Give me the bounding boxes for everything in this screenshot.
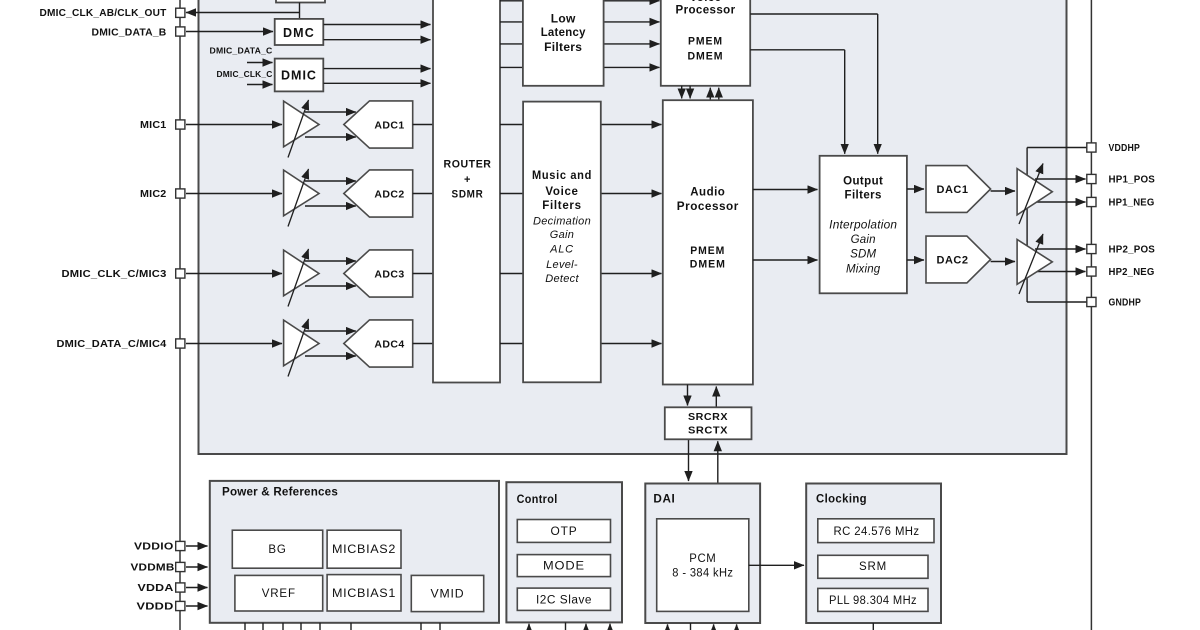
svg-text:VDDIO: VDDIO [134, 542, 174, 553]
svg-text:Audio: Audio [690, 187, 725, 199]
svg-text:DMIC_CLK_C: DMIC_CLK_C [217, 69, 273, 79]
svg-text:+: + [464, 174, 471, 186]
svg-text:HP1_NEG: HP1_NEG [1109, 198, 1155, 209]
svg-text:PCM: PCM [689, 553, 716, 565]
svg-text:DMIC_DATA_C/MIC4: DMIC_DATA_C/MIC4 [57, 339, 167, 350]
svg-text:Filters: Filters [845, 190, 882, 202]
svg-text:VDDA: VDDA [138, 583, 174, 594]
svg-text:DAI: DAI [653, 493, 675, 505]
svg-text:HP1_POS: HP1_POS [1109, 175, 1156, 186]
svg-text:DAC1: DAC1 [937, 184, 969, 196]
svg-text:RC 24.576 MHz: RC 24.576 MHz [834, 526, 920, 538]
svg-text:Filters: Filters [544, 40, 582, 54]
svg-text:OTP: OTP [551, 526, 578, 538]
svg-text:VREF: VREF [262, 588, 296, 600]
svg-text:Processor: Processor [677, 201, 739, 213]
svg-text:HP2_NEG: HP2_NEG [1109, 267, 1155, 278]
svg-text:Control: Control [517, 494, 558, 506]
svg-text:PMEM: PMEM [688, 36, 723, 48]
svg-text:SRM: SRM [859, 561, 887, 573]
svg-text:DMC: DMC [283, 26, 315, 40]
svg-text:Music and: Music and [532, 170, 592, 182]
svg-text:ALC: ALC [549, 244, 574, 256]
svg-text:I2C Slave: I2C Slave [536, 594, 592, 606]
svg-text:SRCRX: SRCRX [688, 411, 728, 423]
svg-text:DMEM: DMEM [688, 51, 724, 63]
svg-text:Detect: Detect [545, 273, 579, 285]
svg-text:Voice: Voice [690, 0, 722, 4]
svg-text:DMEM: DMEM [690, 259, 726, 271]
svg-text:DMIC_DATA_B: DMIC_DATA_B [92, 28, 167, 39]
svg-text:MIC2: MIC2 [140, 189, 167, 200]
svg-text:DMIC: DMIC [281, 69, 317, 83]
svg-text:ADC2: ADC2 [374, 189, 404, 201]
svg-text:Processor: Processor [676, 5, 736, 17]
svg-text:Mixing: Mixing [846, 263, 881, 275]
svg-text:ROUTER: ROUTER [444, 159, 492, 171]
svg-text:Interpolation: Interpolation [829, 220, 897, 232]
svg-text:MODE: MODE [543, 561, 585, 573]
svg-text:Clocking: Clocking [816, 493, 867, 505]
svg-text:SRCTX: SRCTX [688, 425, 728, 437]
svg-text:Voice: Voice [545, 186, 578, 198]
svg-text:VMID: VMID [431, 589, 465, 601]
svg-text:Decimation: Decimation [533, 215, 591, 227]
svg-text:MICBIAS2: MICBIAS2 [332, 544, 396, 556]
svg-text:VDDD: VDDD [137, 602, 174, 613]
svg-text:Gain: Gain [550, 229, 574, 241]
svg-text:Power & References: Power & References [222, 485, 338, 499]
svg-text:DMIC_CLK_AB/CLK_OUT: DMIC_CLK_AB/CLK_OUT [40, 8, 167, 19]
svg-text:DAC2: DAC2 [937, 255, 969, 267]
svg-text:GNDHP: GNDHP [1109, 298, 1142, 309]
svg-text:ADC3: ADC3 [374, 269, 404, 281]
svg-text:DMIC_CLK_C/MIC3: DMIC_CLK_C/MIC3 [62, 269, 167, 280]
svg-text:HP2_POS: HP2_POS [1109, 245, 1156, 256]
svg-text:Level-: Level- [546, 259, 578, 271]
svg-text:MICBIAS1: MICBIAS1 [332, 588, 396, 600]
svg-text:PLL 98.304 MHz: PLL 98.304 MHz [829, 595, 917, 607]
svg-text:Low: Low [551, 11, 576, 25]
svg-text:BG: BG [268, 544, 286, 556]
svg-text:PMEM: PMEM [690, 245, 725, 257]
svg-text:SDMR: SDMR [452, 189, 484, 201]
svg-text:Gain: Gain [851, 234, 876, 246]
svg-text:MIC1: MIC1 [140, 120, 167, 131]
svg-text:DMIC_DATA_C: DMIC_DATA_C [210, 45, 273, 55]
svg-text:VDDMB: VDDMB [131, 563, 175, 574]
svg-text:8 - 384 kHz: 8 - 384 kHz [672, 567, 733, 579]
svg-text:ADC1: ADC1 [374, 120, 404, 132]
svg-text:Latency: Latency [541, 25, 586, 39]
svg-text:Output: Output [843, 175, 883, 187]
svg-text:ADC4: ADC4 [374, 339, 404, 351]
svg-text:VDDHP: VDDHP [1109, 143, 1141, 154]
svg-text:SDM: SDM [850, 249, 876, 261]
svg-text:Filters: Filters [542, 200, 581, 212]
